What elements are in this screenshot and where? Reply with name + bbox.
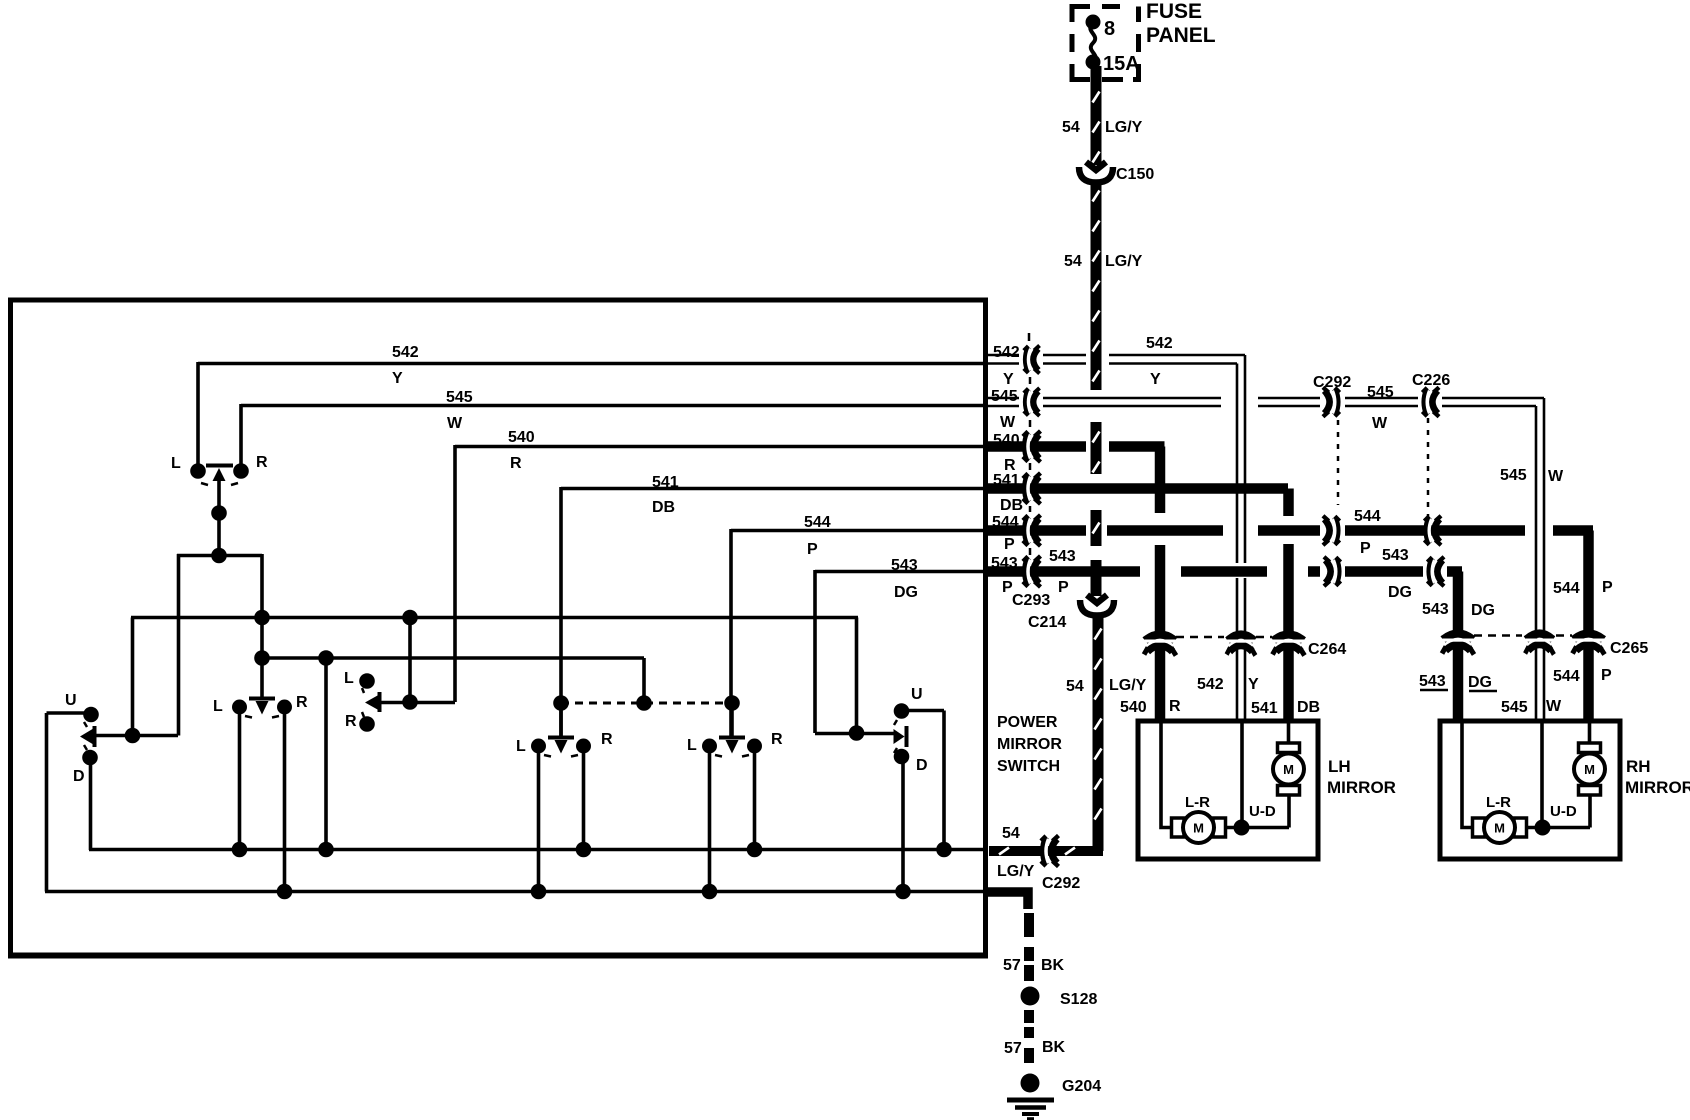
wire: U/D wiper feed net (617 bus) (131, 618, 858, 736)
wire: U contact to feed bus (right) (908, 711, 944, 851)
wire: LH 542 to junction (1240, 722, 1244, 828)
svg-text:545: 545 (991, 388, 1018, 405)
junction feed/switch1-L (232, 842, 248, 858)
junction feed/U-right (936, 842, 952, 858)
wire: D contact to ground bus (right) (901, 756, 905, 890)
wire 54 LG/Y C150 to C214 (hatched) (1093, 184, 1100, 596)
svg-text:L-R: L-R (1486, 794, 1511, 811)
color label DG (below C265, underlined) (1468, 674, 1497, 691)
svg-text:R: R (1169, 698, 1181, 715)
svg-text:P: P (1004, 536, 1015, 553)
wire: switch2 L to ground bus (537, 746, 541, 890)
wire: RH U-D motor bottom lead (1588, 794, 1592, 828)
wire 545 internal (R contact to C293) (241, 404, 985, 464)
svg-text:540: 540 (993, 432, 1020, 449)
middle L/R switch: R contact (359, 716, 375, 732)
wire 541 internal (561, 487, 985, 738)
svg-text:C292: C292 (1313, 374, 1351, 391)
connector C226 half (543 row) (1427, 557, 1444, 586)
svg-text:Y: Y (1150, 371, 1161, 388)
fuse panel dashed box (1072, 7, 1139, 80)
wire 540 internal (455, 445, 985, 702)
svg-text:545: 545 (1367, 384, 1394, 401)
svg-text:Y: Y (392, 370, 403, 387)
left U/D switch: D contact (82, 750, 98, 766)
connector C293 pin (545) (1024, 388, 1040, 416)
wire: switch3 R to feed bus (753, 746, 757, 850)
wire 544 internal (731, 529, 985, 738)
svg-text:P: P (1360, 540, 1371, 557)
wire: switch1 R contact to ground bus (283, 707, 287, 890)
svg-text:543: 543 (891, 557, 918, 574)
svg-text:543: 543 (1419, 673, 1446, 690)
wire 541 DB (switch to LH mirror, thick) (985, 489, 1289, 723)
wire: U contact to ground bus (left) (47, 713, 92, 892)
junction branch/wiper line (402, 694, 418, 710)
wire: LH U-D motor bottom lead (1287, 794, 1291, 828)
svg-text:R: R (601, 731, 613, 748)
LH mirror U-D motor (1273, 743, 1304, 795)
svg-text:54: 54 (1002, 825, 1020, 842)
svg-text:543: 543 (1382, 547, 1409, 564)
svg-text:DB: DB (1000, 497, 1023, 514)
wire label 543 (below C265, underlined) (1419, 673, 1448, 690)
svg-text:544: 544 (992, 514, 1019, 531)
svg-text:BK: BK (1042, 1039, 1066, 1056)
svg-text:M: M (1584, 762, 1595, 777)
wire: mirror feed bus (54 net) (89, 848, 985, 852)
connector link dashed C292 down (1337, 420, 1340, 505)
connector C293 pin (542) (1024, 346, 1040, 374)
svg-text:DB: DB (652, 499, 675, 516)
RH mirror L-R motor (1473, 812, 1527, 843)
connector C292 half (544 row) (1323, 516, 1340, 545)
wire: switch1 L contact to feed bus (238, 707, 242, 850)
wire: branch x326 (658 to feed bus) (324, 658, 328, 850)
svg-text:POWER: POWER (997, 714, 1058, 731)
connector C293 pin (541) (1023, 473, 1041, 504)
svg-text:PANEL: PANEL (1146, 24, 1216, 47)
mechanical linkage (dashed) (561, 702, 732, 705)
svg-text:541: 541 (652, 474, 679, 491)
svg-text:W: W (1546, 698, 1562, 715)
svg-text:RH: RH (1626, 757, 1651, 776)
wire 543 internal (815, 570, 985, 733)
svg-text:P: P (807, 541, 818, 558)
wire 545 W (switch to C265, double line) (984, 398, 1544, 722)
junction feed/switch3-R (747, 842, 763, 858)
svg-text:543: 543 (1049, 548, 1076, 565)
right U/D switch: D contact (894, 749, 910, 765)
left U/D switch: wiper (left arrow) (80, 722, 178, 750)
wire: LH 541 to U-D motor top (1287, 722, 1291, 743)
wire: D contact to feed bus (left) (89, 757, 93, 850)
svg-text:SWITCH: SWITCH (997, 758, 1060, 775)
junction feed/switch2-R (576, 842, 592, 858)
svg-text:54: 54 (1066, 678, 1084, 695)
svg-text:L: L (516, 738, 526, 755)
svg-text:545: 545 (446, 389, 473, 406)
wire: branch 617-bus to LR wiper line (408, 618, 412, 703)
select switch yoke (177, 554, 262, 736)
connector C265 (543) (1442, 634, 1474, 655)
connector C226 half (544 row) (1424, 516, 1441, 545)
wire: RH 545 to junction (1540, 722, 1544, 828)
svg-text:R: R (296, 694, 308, 711)
svg-text:D: D (73, 768, 85, 785)
junction 617-bus / LR wiper branch (402, 610, 418, 626)
svg-text:C226: C226 (1412, 372, 1450, 389)
connector C265 (544) (1573, 634, 1605, 655)
svg-text:57: 57 (1003, 957, 1021, 974)
connector C293 pin (540) (1023, 431, 1041, 462)
connector C150 (1079, 162, 1113, 183)
svg-text:C150: C150 (1116, 166, 1154, 183)
junction 658/bus-branch x326 (318, 650, 334, 666)
left U/D switch: U contact (83, 707, 99, 723)
svg-text:U: U (911, 686, 923, 703)
svg-text:545: 545 (1501, 699, 1528, 716)
svg-text:U: U (65, 692, 77, 709)
connector C293 pin (543) (1023, 556, 1041, 587)
svg-text:541: 541 (993, 472, 1020, 489)
junction RH common (1535, 820, 1551, 836)
L/R switch 1 (select, lower) (232, 699, 292, 718)
svg-text:545: 545 (1500, 467, 1527, 484)
svg-text:544: 544 (1553, 580, 1580, 597)
wire 54 LG/Y fuse panel to C150 (hatched) (1093, 66, 1100, 165)
svg-text:L: L (213, 698, 223, 715)
connector C293 pin (544) (1023, 515, 1041, 546)
svg-text:542: 542 (392, 344, 419, 361)
svg-text:DB: DB (1297, 699, 1320, 716)
wire: 658 link (yoke to switch linkage) (262, 658, 644, 703)
wire: ground bus (57 net) (45, 890, 985, 894)
junction 658/yoke (254, 650, 270, 666)
svg-text:U-D: U-D (1550, 803, 1577, 820)
mirror select switch: L contact (190, 463, 206, 479)
wire 542 Y (switch to C264, double line) (984, 355, 1245, 722)
svg-text:DG: DG (1468, 674, 1492, 691)
wire 57 BK lower (dashed) (1024, 1010, 1034, 1063)
svg-text:LG/Y: LG/Y (1109, 677, 1147, 694)
dashed link C264 row (1176, 636, 1272, 639)
svg-text:8: 8 (1104, 18, 1115, 40)
wire: RH L-R motor to U-D motor (1527, 826, 1590, 830)
RH mirror box (1440, 721, 1620, 859)
LH mirror box (1138, 721, 1318, 859)
wire 544 P (switch to RH mirror, thick) (985, 531, 1593, 723)
svg-text:P: P (1602, 579, 1613, 596)
svg-text:W: W (1548, 468, 1564, 485)
wire: LH L-R motor to U-D motor (1226, 826, 1289, 830)
svg-text:MIRROR: MIRROR (1327, 778, 1396, 797)
connector C292 half (543 row) (1324, 557, 1341, 586)
wire: switch2 R to feed bus (582, 746, 586, 850)
connector link dashes (C293 column) (1029, 333, 1030, 555)
svg-text:C214: C214 (1028, 614, 1066, 631)
svg-text:540: 540 (508, 429, 535, 446)
wire 540 R (switch to LH mirror, thick) (985, 447, 1165, 723)
connector C265 (545) (1525, 634, 1554, 655)
svg-text:544: 544 (1354, 508, 1381, 525)
junction LH common (1234, 820, 1250, 836)
wire: switch3 L to ground bus (708, 746, 712, 890)
svg-text:D: D (916, 757, 928, 774)
svg-text:DG: DG (1388, 584, 1412, 601)
power mirror switch box (8, 298, 988, 958)
junction left wiper feed / 617 branch (125, 728, 141, 744)
svg-text:543: 543 (991, 555, 1018, 572)
connector C264 (540) (1144, 635, 1176, 656)
junction select wiper to yoke (211, 548, 227, 564)
junction 617-bus / yoke right leg (254, 610, 270, 626)
fuse F8 15A element (1086, 15, 1101, 70)
svg-text:542: 542 (1146, 335, 1173, 352)
connector C292 (54 hatched wire) (1041, 836, 1059, 867)
label RH MIRROR (1625, 757, 1690, 797)
connector C264 (542) (1227, 635, 1256, 656)
label POWER MIRROR SWITCH (997, 714, 1062, 775)
mirror select switch: R contact (233, 463, 249, 479)
dashed link C265 row (1474, 634, 1572, 637)
svg-text:W: W (447, 415, 463, 432)
svg-text:R: R (510, 455, 522, 472)
middle L/R switch (vertical): L contact (359, 673, 375, 689)
svg-text:C292: C292 (1042, 875, 1080, 892)
svg-text:BK: BK (1041, 957, 1065, 974)
wire 543 DG (switch to RH mirror, thick) (985, 572, 1462, 723)
svg-text:544: 544 (1553, 668, 1580, 685)
label LH MIRROR (1327, 757, 1396, 797)
junction feed/x326 branch (318, 842, 334, 858)
svg-text:M: M (1193, 821, 1204, 836)
middle L/R switch: wiper (left arrow) (362, 688, 455, 717)
connector C226 (545 row) (1422, 387, 1439, 416)
linkage pivot mid (636, 695, 652, 711)
svg-text:P: P (1601, 667, 1612, 684)
svg-text:543: 543 (1422, 601, 1449, 618)
svg-text:M: M (1494, 821, 1505, 836)
right U/D switch: U contact (894, 703, 910, 719)
svg-text:LG/Y: LG/Y (1105, 253, 1143, 270)
LH mirror L-R motor (1172, 812, 1226, 843)
svg-text:LG/Y: LG/Y (997, 863, 1035, 880)
svg-text:DG: DG (1471, 602, 1495, 619)
wire 542 internal (L contact to C293) (198, 362, 985, 464)
linkage pivot left (553, 695, 569, 711)
svg-text:L: L (171, 455, 181, 472)
L/R switch 2 (LH mirror L/R) (531, 703, 591, 757)
junction right wiper feed / 617 branch (849, 725, 865, 741)
svg-text:R: R (345, 713, 357, 730)
svg-text:W: W (1000, 414, 1016, 431)
svg-text:540: 540 (1120, 699, 1147, 716)
svg-text:544: 544 (804, 514, 831, 531)
svg-text:C264: C264 (1308, 641, 1346, 658)
mirror select switch: wiper (up arrow) (201, 466, 238, 557)
junction ground/D-right (895, 884, 911, 900)
svg-text:L-R: L-R (1185, 794, 1210, 811)
svg-text:MIRROR: MIRROR (997, 736, 1062, 753)
svg-text:P: P (1058, 579, 1069, 596)
splice S128 (1021, 987, 1040, 1006)
connector C214 (on 54 wire) (1080, 595, 1114, 616)
svg-text:U-D: U-D (1249, 803, 1276, 820)
linkage pivot right (724, 695, 740, 711)
svg-text:FUSE: FUSE (1146, 0, 1202, 23)
svg-text:57: 57 (1004, 1040, 1022, 1057)
svg-text:LH: LH (1328, 757, 1351, 776)
ground symbol G204 (1007, 1100, 1054, 1119)
svg-text:Y: Y (1003, 371, 1014, 388)
junction ground/switch3-L (702, 884, 718, 900)
svg-text:M: M (1283, 762, 1294, 777)
svg-text:G204: G204 (1062, 1078, 1101, 1095)
svg-text:54: 54 (1064, 253, 1082, 270)
svg-text:R: R (771, 731, 783, 748)
junction on select wiper shaft (211, 505, 227, 521)
svg-text:R: R (256, 454, 268, 471)
wire 57 BK upper (ground bus exit, dashed) (987, 892, 1029, 981)
svg-text:S128: S128 (1060, 991, 1097, 1008)
svg-text:C265: C265 (1610, 640, 1648, 657)
connector C292 (545 row) (1323, 387, 1340, 416)
svg-text:C293: C293 (1012, 592, 1050, 609)
svg-text:54: 54 (1062, 119, 1080, 136)
svg-text:Y: Y (1248, 676, 1259, 693)
svg-text:542: 542 (993, 344, 1020, 361)
L/R switch 3 (RH mirror L/R) (702, 703, 762, 757)
svg-text:L: L (344, 670, 354, 687)
wire: RH 543 feed to L-R motor (1462, 723, 1473, 828)
right U/D switch: wiper (right arrow) (815, 720, 907, 753)
junction ground/switch1-R (277, 884, 293, 900)
svg-text:W: W (1372, 415, 1388, 432)
wire 54 LG/Y C214 to C292 splice (hatched) (989, 614, 1103, 855)
junction ground/switch2-L (531, 884, 547, 900)
connector link dashed C226 down (1427, 418, 1430, 522)
wire: LH 540 feed to L-R motor (1161, 723, 1172, 828)
connector C264 (541) (1273, 635, 1305, 656)
label FUSE PANEL (1146, 0, 1216, 47)
svg-text:15A: 15A (1103, 53, 1140, 75)
svg-text:DG: DG (894, 584, 918, 601)
RH mirror U-D motor (1574, 743, 1605, 795)
svg-text:542: 542 (1197, 676, 1224, 693)
svg-text:MIRROR: MIRROR (1625, 778, 1690, 797)
svg-text:L: L (687, 737, 697, 754)
ground splice G204 (1021, 1074, 1040, 1093)
wire: RH 544 to U-D motor top (1588, 722, 1592, 743)
svg-text:541: 541 (1251, 700, 1278, 717)
svg-text:LG/Y: LG/Y (1105, 119, 1143, 136)
